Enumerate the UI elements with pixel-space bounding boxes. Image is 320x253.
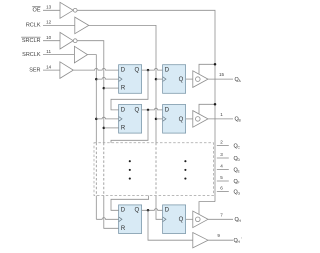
svg-text:2: 2: [220, 140, 223, 145]
svg-text:Q: Q: [179, 77, 184, 83]
svg-text:12: 12: [46, 20, 52, 25]
svg-text:Q: Q: [179, 117, 184, 123]
svg-text:1: 1: [220, 112, 223, 117]
svg-text:R: R: [121, 226, 126, 232]
svg-text:6: 6: [220, 186, 223, 191]
svg-text:Q: Q: [179, 217, 184, 223]
svg-text:9: 9: [217, 233, 220, 238]
svg-text:SER: SER: [29, 67, 40, 73]
svg-text:7: 7: [220, 212, 223, 217]
svg-text:D: D: [165, 68, 170, 74]
svg-text:13: 13: [46, 5, 52, 10]
svg-text:D: D: [121, 208, 126, 214]
svg-text:Q: Q: [135, 208, 140, 214]
svg-text:14: 14: [46, 64, 52, 69]
svg-text:R: R: [121, 86, 126, 92]
svg-text:R: R: [121, 125, 126, 131]
svg-text:D: D: [121, 68, 126, 74]
svg-text:10: 10: [46, 35, 52, 40]
svg-text:3: 3: [220, 152, 223, 157]
svg-text:4: 4: [220, 163, 223, 168]
svg-text:D: D: [165, 107, 170, 113]
svg-text:SRCLR: SRCLR: [22, 38, 41, 44]
svg-text:SRCLK: SRCLK: [22, 52, 41, 58]
svg-text:D: D: [121, 107, 126, 113]
svg-text:Q: Q: [135, 68, 140, 74]
svg-text:15: 15: [219, 72, 225, 77]
svg-text:5: 5: [220, 175, 223, 180]
svg-text:G: G: [238, 191, 241, 195]
svg-text:11: 11: [46, 49, 51, 54]
svg-text:RCLK: RCLK: [26, 23, 41, 29]
svg-text:D: D: [165, 208, 170, 214]
svg-text:F: F: [238, 181, 240, 185]
svg-text:Q: Q: [135, 107, 140, 113]
svg-text:OE: OE: [33, 8, 41, 14]
